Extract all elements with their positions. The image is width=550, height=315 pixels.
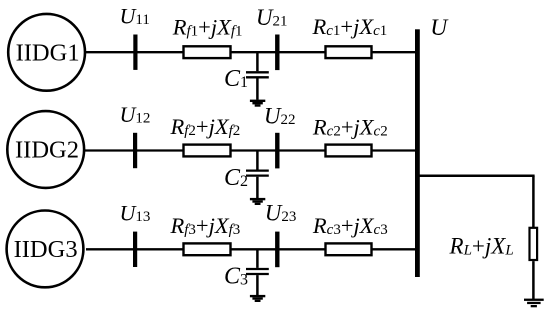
bus U13 <box>133 232 137 267</box>
ground (C3) <box>250 295 265 302</box>
resistor Rc2+jXc2 <box>326 145 372 157</box>
svg-text:C2: C2 <box>224 165 248 191</box>
svg-text:C3: C3 <box>224 264 248 290</box>
wire branch to load (horizontal) <box>417 175 535 178</box>
wire row1 horizontal <box>86 51 417 53</box>
svg-text:C1: C1 <box>224 66 248 92</box>
generator IIDG3 <box>7 211 84 288</box>
wire branch to load (vertical) <box>532 176 535 227</box>
bus U12 <box>133 133 137 168</box>
ground (C1) <box>250 100 265 107</box>
bus U22 <box>275 133 279 169</box>
svg-text:U: U <box>430 15 449 41</box>
ground (load) <box>524 299 544 308</box>
generator IIDG1 <box>8 14 85 91</box>
resistor Rf1+jXf1 <box>184 46 231 58</box>
svg-text:Rc2+jXc2: Rc2+jXc2 <box>312 115 388 140</box>
resistor Rc3+jXc3 <box>326 243 372 255</box>
svg-text:U23: U23 <box>265 201 297 226</box>
resistor Rc1+jXc1 <box>326 46 372 58</box>
load resistor RL+jXL <box>530 228 538 260</box>
generator IIDG2 <box>7 111 84 188</box>
svg-text:U22: U22 <box>264 103 296 128</box>
resistor Rf2+jXf2 <box>184 145 231 157</box>
capacitor C2 <box>246 151 269 199</box>
wire load to ground <box>532 261 535 300</box>
svg-text:U13: U13 <box>120 201 151 226</box>
svg-text:U21: U21 <box>256 5 288 30</box>
svg-text:U12: U12 <box>120 102 151 127</box>
svg-text:Rc1+jXc1: Rc1+jXc1 <box>312 14 388 39</box>
bus U23 <box>275 232 279 268</box>
svg-text:IIDG2: IIDG2 <box>15 137 79 164</box>
ground (C2) <box>250 198 265 205</box>
svg-text:IIDG1: IIDG1 <box>16 39 80 66</box>
capacitor C1 <box>246 52 269 100</box>
svg-text:Rf3+jXf3: Rf3+jXf3 <box>170 213 241 238</box>
svg-text:Rf2+jXf2: Rf2+jXf2 <box>170 114 241 139</box>
wire row2 horizontal <box>85 149 417 151</box>
svg-text:RL+jXL: RL+jXL <box>449 233 514 258</box>
bus U11 <box>133 35 137 70</box>
svg-text:U11: U11 <box>120 4 150 29</box>
svg-text:Rf1+jXf1: Rf1+jXf1 <box>172 15 243 40</box>
svg-text:Rc3+jXc3: Rc3+jXc3 <box>312 213 388 238</box>
resistor Rf3+jXf3 <box>184 243 231 255</box>
bus U (main vertical busbar) <box>415 29 420 277</box>
wire row3 horizontal <box>86 248 417 250</box>
svg-text:IIDG3: IIDG3 <box>14 236 78 263</box>
bus U21 <box>275 35 279 71</box>
capacitor C3 <box>246 249 269 295</box>
